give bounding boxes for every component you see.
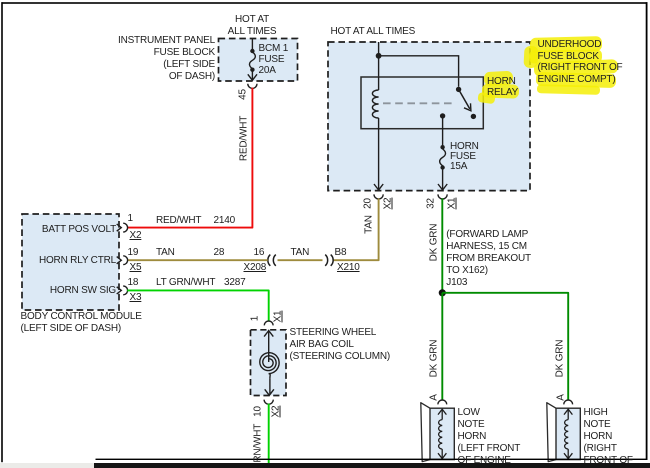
BCM internal label BATT POS VOLT — [30, 224, 116, 236]
wire TAN (pin 20 to X210) — [333, 198, 379, 260]
steering wheel air bag coil (dashed box) — [251, 330, 287, 396]
frame: top border — [2, 2, 648, 4]
relay armature dashed link — [383, 102, 455, 104]
pin label 20 — [362, 183, 373, 223]
body control module (dashed box) — [22, 214, 119, 310]
relay output contact — [440, 113, 445, 118]
in-line connector X210 — [325, 255, 333, 266]
label underhood fuse block — [538, 39, 623, 85]
label steering wheel air bag coil — [290, 327, 391, 364]
label HOT AT ALL TIMES (right) — [331, 26, 416, 38]
instrument panel fuse block (dashed box) — [219, 39, 298, 82]
in-line connector X208 — [268, 255, 276, 266]
fuse F1 BCM 1 FUSE 20A — [248, 39, 257, 81]
BCM internal label HORN SW SIG — [30, 285, 116, 297]
connector label X2 (underhood) — [383, 184, 394, 224]
high note horn coil — [564, 409, 572, 459]
wire label DK GRN (low horn) — [428, 334, 439, 384]
BCM pin row 3 labels — [128, 277, 139, 289]
wire label DK GRN (high horn) — [554, 334, 565, 384]
wire: relay to horn fuse — [442, 116, 444, 146]
wire label LT GRN/WHT (vertical, clipped) — [252, 404, 263, 468]
high note horn — [547, 403, 556, 462]
low note horn coil — [438, 409, 446, 459]
label HORN RELAY — [487, 76, 518, 99]
wire label RED/WHT (vertical) — [238, 89, 249, 189]
underhood fuse block (dashed box) — [328, 42, 530, 191]
relay K1 HORN RELAY box — [361, 77, 483, 129]
connector pin A cup (low horn) — [438, 400, 447, 404]
connector label X1 (underhood) — [447, 184, 458, 224]
label HORN FUSE 15A — [450, 142, 479, 172]
wire: coil to pin 20 — [378, 129, 380, 190]
low note horn — [421, 403, 430, 462]
BCM pin row 2 labels — [128, 247, 139, 259]
wire TAN (X210 to X208) — [278, 259, 323, 261]
wire LT GRN/WHT to horn switch — [268, 404, 270, 464]
ui: bottom black bar — [94, 463, 650, 468]
connector pin 45 cup — [248, 84, 257, 89]
label instrument panel fuse block — [100, 35, 215, 83]
connector pin A cup (high horn) — [564, 400, 573, 404]
fuse F2 HORN FUSE 15A — [440, 145, 444, 149]
BCM pin row 1 labels — [128, 213, 133, 225]
pin label A (high horn) — [555, 377, 566, 417]
connector pin 32 X1 cup — [438, 194, 447, 199]
wire LT GRN/WHT 3287 — [127, 290, 269, 321]
label low note horn — [458, 407, 521, 467]
pin label 1 (air bag coil top) — [249, 299, 260, 339]
BCM pin 19 arrow and cup — [117, 257, 122, 264]
connector pin 10 X2 cup — [264, 400, 273, 405]
label forward lamp harness note — [446, 229, 531, 289]
connector label X2 (air bag coil bottom) — [270, 392, 281, 432]
wire DK GRN branch to high note horn — [442, 293, 568, 400]
highlight: horn relay label — [477, 71, 519, 104]
frame: right border — [646, 2, 648, 459]
connector pin 20 X2 cup — [374, 194, 383, 199]
BCM pin 1 arrow and cup — [117, 224, 122, 231]
relay coil — [378, 77, 380, 90]
clockspring spiral U2 — [268, 330, 270, 362]
wire label DK GRN (vertical, upper) — [428, 217, 439, 267]
relay switch — [456, 87, 461, 92]
connector pin 1 X1 cup (air bag coil) — [264, 321, 273, 325]
label body control module — [21, 311, 142, 335]
wire DK GRN to low note horn — [441, 293, 443, 400]
connector label X1 (air bag coil) — [272, 296, 283, 336]
label high note horn — [584, 407, 633, 467]
wire RED/WHT 2140 — [127, 88, 252, 228]
highlight: underhood fuse block note — [523, 36, 618, 95]
wire: branch to relay switch — [379, 56, 459, 87]
wire label TAN (vertical) — [364, 204, 375, 244]
ui: bottom gray bar — [0, 463, 94, 468]
pin label A (low horn) — [429, 377, 440, 417]
wire: feed into relay — [378, 42, 380, 77]
BCM internal label HORN RLY CTRL — [30, 255, 116, 267]
pin label 10 (air bag coil bottom) — [252, 392, 263, 432]
node: feed junction — [376, 53, 382, 59]
label HOT AT ALL TIMES (left) — [212, 14, 292, 38]
pin label 32 — [425, 183, 436, 223]
wire DK GRN (pin 32 to J103) — [441, 198, 443, 292]
wire TAN 28 (X208 to BCM pin 19) — [127, 259, 268, 261]
pin label 45 — [237, 74, 248, 114]
label BCM 1 FUSE 20A — [259, 43, 289, 76]
frame: left border — [1, 2, 3, 462]
frame: bottom border — [96, 459, 648, 460]
BCM pin 18 arrow and cup — [117, 287, 122, 294]
junction J103 — [439, 289, 446, 296]
